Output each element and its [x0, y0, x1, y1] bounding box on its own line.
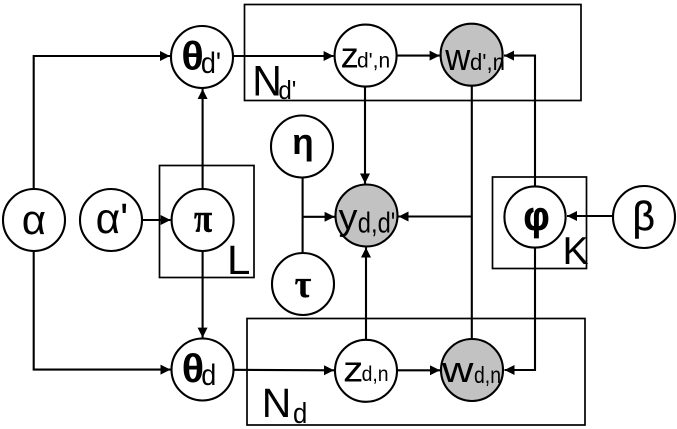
svg-text:d': d'	[201, 47, 221, 80]
svg-text:d,d': d,d'	[358, 208, 396, 240]
svg-text:y: y	[339, 197, 358, 238]
svg-text:K: K	[563, 230, 589, 273]
svg-text:α': α'	[96, 196, 129, 243]
svg-text:π: π	[194, 196, 212, 241]
svg-text:d: d	[293, 398, 307, 429]
svg-text:β: β	[633, 193, 655, 239]
svg-text:z: z	[343, 349, 363, 390]
svg-text:d',n: d',n	[357, 50, 390, 73]
svg-text:α: α	[22, 196, 46, 243]
svg-text:L: L	[227, 237, 250, 283]
svg-text:τ: τ	[295, 263, 312, 306]
svg-text:N: N	[262, 380, 292, 426]
svg-text:w: w	[444, 37, 470, 79]
svg-text:d',n: d',n	[470, 49, 505, 75]
svg-text:η: η	[292, 121, 314, 162]
svg-text:d,n: d,n	[474, 362, 501, 388]
svg-text:d': d'	[278, 75, 296, 105]
svg-text:d,n: d,n	[362, 363, 389, 386]
svg-text:N: N	[252, 57, 282, 104]
svg-text:d: d	[201, 359, 216, 392]
svg-text:w: w	[441, 349, 474, 390]
svg-text:φ: φ	[524, 195, 550, 239]
